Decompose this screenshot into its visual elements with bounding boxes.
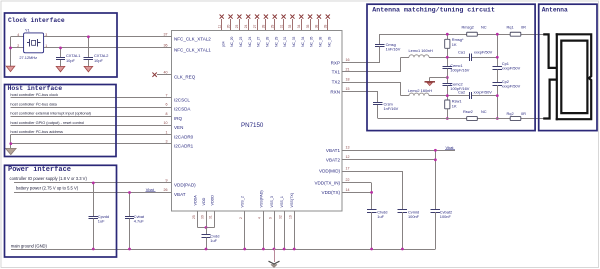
svg-text:I2CSCL: I2CSCL: [174, 98, 190, 103]
svg-text:6: 6: [166, 103, 168, 107]
svg-text:VDDD: VDDD: [210, 195, 214, 206]
IC U1 PN7150: [172, 31, 343, 212]
svg-text:3: 3: [166, 139, 168, 143]
svg-text:37: 37: [164, 33, 168, 37]
node crystal ground junction: [9, 47, 12, 50]
right column Cp1/Cp2: [497, 34, 499, 67]
svg-text:VDD(TX_IN): VDD(TX_IN): [314, 181, 340, 186]
svg-text:1K: 1K: [452, 103, 457, 108]
svg-text:15: 15: [346, 87, 350, 91]
svg-text:Y1: Y1: [25, 28, 31, 33]
svg-text:18: 18: [346, 77, 350, 81]
svg-text:20: 20: [226, 24, 230, 28]
svg-text:VBAT: VBAT: [174, 192, 186, 197]
inductor Lemc1 160nH: [400, 57, 402, 72]
capacitor CXTAL2 10pF: [88, 37, 90, 58]
pin 31 NC_31 NC: [283, 19, 285, 30]
capacitor Cemc2 150pF/16V: [443, 83, 452, 85]
svg-text:I2CSDA: I2CSDA: [174, 107, 191, 112]
svg-text:35: 35: [306, 24, 310, 28]
capacitor Ca1 xxxpF/50V: [469, 54, 471, 61]
svg-text:100nF: 100nF: [440, 214, 452, 219]
crystal Y1 27.12MHz: [24, 33, 44, 53]
svg-text:NC_23: NC_23: [239, 36, 243, 46]
svg-text:40: 40: [164, 70, 168, 74]
capacitor Cvbat2 100nF: [435, 150, 437, 209]
svg-text:4: 4: [258, 217, 262, 219]
wire left vertical to ground: [10, 37, 12, 66]
svg-text:36: 36: [164, 44, 168, 48]
resistor Rq2 0R: [510, 117, 521, 121]
svg-text:xxxpF/50V: xxxpF/50V: [502, 66, 521, 71]
svg-text:NC_28: NC_28: [266, 36, 270, 46]
svg-text:1nF/16V: 1nF/16V: [384, 106, 399, 111]
svg-text:21: 21: [346, 67, 350, 71]
svg-text:NC: NC: [481, 25, 487, 30]
svg-text:VSS_1: VSS_1: [280, 196, 284, 207]
capacitor Cvbat 4.7uF: [129, 193, 131, 217]
pin 4 VSS(PAD): [263, 211, 265, 249]
svg-text:xxxpF/50V: xxxpF/50V: [474, 50, 493, 55]
svg-text:Antenna matching/tuning circui: Antenna matching/tuning circuit: [372, 6, 495, 13]
pin 23 NC_23 NC: [239, 19, 241, 30]
svg-text:VSS_3: VSS_3: [270, 196, 274, 207]
pin 13 VBAT1: [342, 150, 455, 152]
wire crystal pin2 lead: [11, 47, 24, 49]
svg-text:33: 33: [288, 24, 292, 28]
svg-text:34: 34: [297, 24, 301, 28]
capacitor Cemc1 150pF/16V: [443, 66, 452, 68]
svg-text:19: 19: [289, 215, 293, 219]
svg-text:26: 26: [164, 188, 168, 192]
wire net XTAL1 (crystal pin1 to IC pin36): [44, 47, 172, 49]
svg-text:29: 29: [271, 24, 275, 28]
svg-text:28: 28: [262, 24, 266, 28]
svg-text:VEN: VEN: [174, 125, 183, 130]
wire VDD(PAD) supply: [14, 182, 172, 184]
svg-text:NC_20: NC_20: [230, 36, 234, 46]
node tx2: [446, 94, 449, 97]
svg-text:NC_33: NC_33: [292, 36, 296, 46]
ground host box: [6, 148, 17, 154]
capacitor Ctvdd 1uF: [371, 183, 373, 210]
svg-text:10: 10: [164, 121, 168, 125]
pin 29 NC_29 NC: [274, 19, 276, 30]
svg-text:NC_35: NC_35: [310, 36, 314, 46]
svg-text:host controller I²C-bus addres: host controller I²C-bus address: [10, 129, 63, 134]
svg-text:Host interface: Host interface: [8, 85, 63, 92]
capacitor Ca2 xxxpF/50V: [469, 92, 471, 99]
pin 9 VSS_3: [274, 211, 276, 249]
svg-text:NFC_CLK_XTAL1: NFC_CLK_XTAL1: [174, 48, 211, 53]
svg-text:NFC_CLK_XTAL2: NFC_CLK_XTAL2: [174, 37, 211, 42]
wire vdd bus: [198, 227, 215, 229]
svg-text:VDD(TX): VDD(TX): [322, 190, 341, 195]
svg-text:10pF: 10pF: [66, 58, 75, 63]
svg-text:NC_24: NC_24: [248, 36, 252, 46]
pin 38 NC_38 NC: [318, 19, 320, 30]
pin 32 VSS_1: [284, 211, 286, 249]
svg-text:VBAT2: VBAT2: [326, 158, 341, 163]
capacitor Crsm 1nF/16V: [377, 92, 379, 103]
svg-text:VSS(PAD): VSS(PAD): [259, 190, 263, 207]
pin 14 VDD(TX): [342, 192, 372, 194]
wire I2CSDA wire: [10, 107, 171, 109]
node ant1-drive: [446, 56, 449, 59]
pin 17 VDD(MID): [342, 171, 402, 173]
svg-text:100pF/16V: 100pF/16V: [450, 67, 469, 72]
pin 34 NC_34 NC: [301, 19, 303, 30]
svg-text:Rq2: Rq2: [507, 111, 514, 116]
pins VDDA VDD VDDD: [197, 211, 199, 228]
pin 15 RXN: [342, 91, 378, 93]
svg-text:VDD(PAD): VDD(PAD): [174, 183, 196, 188]
ground (antenna matching): [425, 81, 436, 83]
svg-text:4: 4: [17, 33, 19, 37]
ground clock-left: [6, 66, 15, 71]
svg-text:xxxpF/50V: xxxpF/50V: [474, 90, 493, 95]
box Power interface: [5, 165, 117, 257]
node I2CADR1 junction: [9, 142, 12, 145]
pin 20 NC_20 NC: [230, 19, 232, 30]
svg-text:host controller I²C-bus clock: host controller I²C-bus clock: [10, 92, 58, 97]
capacitor Cpvdd 1uF: [93, 183, 95, 216]
svg-text:host controller external inter: host controller external interrupt input…: [10, 112, 91, 116]
pin 19 VSS(TX): [294, 211, 296, 249]
wire I2CADR1: [11, 143, 172, 145]
wire net XTAL2 (crystal pin3 to IC pin37): [44, 36, 172, 38]
wire IRQ wire: [10, 116, 171, 118]
wire bottom rail: [378, 118, 544, 120]
svg-text:I2CADR0: I2CADR0: [174, 134, 194, 139]
svg-text:24: 24: [244, 24, 248, 28]
svg-text:NC_38: NC_38: [319, 36, 323, 46]
svg-text:31: 31: [279, 24, 283, 28]
svg-text:NC_39: NC_39: [327, 36, 331, 46]
wire adr drop to ground: [10, 135, 12, 149]
svg-text:VSS(TX): VSS(TX): [290, 193, 294, 208]
svg-text:TX2: TX2: [332, 80, 341, 85]
resistor Rmsg2 NC: [467, 32, 478, 36]
center column: Rmsg 1K: [447, 34, 449, 39]
svg-text:13: 13: [346, 146, 350, 150]
svg-text:Ca2: Ca2: [458, 89, 465, 94]
capacitor Cmsg 1nF/16V: [379, 34, 381, 44]
svg-text:27.12MHz: 27.12MHz: [19, 55, 37, 60]
svg-text:27: 27: [253, 24, 257, 28]
svg-text:1nF/16V: 1nF/16V: [386, 47, 401, 52]
svg-text:Clock interface: Clock interface: [8, 17, 65, 24]
pin 40 CLK_REQ: [157, 74, 172, 76]
svg-text:32: 32: [278, 215, 282, 219]
svg-text:3: 3: [45, 33, 47, 37]
svg-text:VDD: VDD: [202, 197, 206, 205]
svg-text:VDDA: VDDA: [194, 195, 198, 206]
capacitor CXTAL1 10pF: [60, 48, 62, 58]
svg-text:14: 14: [346, 188, 350, 192]
pin 11 p34 NC: [221, 19, 223, 30]
svg-text:VBAT1: VBAT1: [326, 148, 341, 153]
svg-text:31: 31: [209, 215, 213, 219]
svg-text:Antenna: Antenna: [542, 6, 568, 13]
pin 12 VBAT2: [342, 159, 435, 161]
pin 2 VSS_2: [244, 211, 246, 249]
svg-text:23: 23: [235, 24, 239, 28]
svg-text:RXP: RXP: [331, 60, 340, 65]
node gnd stub: [446, 76, 449, 79]
box Antenna: [539, 4, 597, 130]
svg-text:NC: NC: [481, 109, 487, 114]
svg-text:2: 2: [239, 217, 243, 219]
wire VBAT supply: [14, 192, 172, 194]
capacitor Cp1 xxxpF/50V: [493, 66, 502, 68]
svg-text:1uF: 1uF: [377, 214, 384, 219]
svg-text:1: 1: [45, 44, 47, 48]
wire gnd stub: [430, 77, 448, 79]
resistor Rsw1 1K: [445, 100, 450, 109]
svg-text:8: 8: [166, 112, 168, 116]
svg-text:controller IO power supply (1.: controller IO power supply (1.8 V or 3.3…: [10, 176, 88, 181]
svg-text:2: 2: [17, 44, 19, 48]
svg-text:22: 22: [346, 178, 350, 182]
svg-text:17: 17: [346, 166, 350, 170]
svg-text:4.7uF: 4.7uF: [134, 218, 145, 223]
svg-text:NC_29: NC_29: [274, 36, 278, 46]
wire crystal pin4 lead: [11, 36, 24, 38]
wire I2CSCL wire: [10, 97, 171, 99]
svg-text:30: 30: [200, 215, 204, 219]
pin 27 NC_27 NC: [257, 19, 259, 30]
pin 21 TX1: [342, 71, 401, 73]
svg-text:PN7150: PN7150: [241, 122, 264, 129]
inductor Lemc2 160nH: [400, 82, 402, 96]
wire VEN wire: [10, 125, 171, 127]
svg-text:Ca1: Ca1: [458, 49, 465, 54]
svg-text:100nF: 100nF: [408, 214, 420, 219]
svg-text:TX1: TX1: [332, 70, 341, 75]
svg-text:10pF: 10pF: [94, 58, 103, 63]
svg-text:host controller GPIO (output): host controller GPIO (output) - reset co…: [10, 121, 84, 125]
svg-text:7: 7: [166, 94, 168, 98]
svg-text:IRQ: IRQ: [174, 116, 183, 121]
svg-text:I2CADR1: I2CADR1: [174, 143, 194, 148]
pin 28 NC_28 NC: [265, 19, 267, 30]
svg-text:NC_27: NC_27: [257, 36, 261, 46]
svg-text:VSS_2: VSS_2: [241, 196, 245, 207]
svg-text:9: 9: [268, 217, 272, 219]
svg-text:Power interface: Power interface: [8, 166, 71, 174]
svg-text:battery power (2.75 V up to 5.: battery power (2.75 V up to 5.5 V): [16, 185, 79, 190]
svg-text:main ground (GND): main ground (GND): [11, 243, 48, 248]
svg-text:25: 25: [192, 215, 196, 219]
pin 24 NC_24 NC: [248, 19, 250, 30]
svg-text:1uF: 1uF: [98, 218, 105, 223]
pin 16 RXP: [342, 62, 380, 64]
capacitor Cvmid 100nF: [402, 171, 404, 209]
svg-text:38: 38: [315, 24, 319, 28]
svg-text:39: 39: [324, 24, 328, 28]
svg-text:NC_31: NC_31: [283, 36, 287, 46]
svg-text:1K: 1K: [452, 42, 457, 47]
svg-text:Rq1: Rq1: [507, 25, 514, 30]
ground main (below IC): [274, 249, 276, 262]
pin 39 NC_39 NC: [327, 19, 329, 30]
wire I2CADR0 wire: [10, 134, 171, 136]
svg-text:CLK_REQ: CLK_REQ: [174, 74, 196, 79]
capacitor Cvdd 1uF: [206, 228, 208, 235]
svg-text:0R: 0R: [521, 111, 526, 116]
pin 33 NC_33 NC: [292, 19, 294, 30]
box Host interface: [5, 85, 117, 157]
svg-text:Rsw2: Rsw2: [463, 109, 473, 114]
box Clock interface: [5, 13, 118, 77]
resistor Rsw2 NC: [467, 117, 478, 121]
pin 35 NC_35 NC: [310, 19, 312, 30]
svg-text:1: 1: [166, 130, 168, 134]
svg-text:0R: 0R: [521, 25, 526, 30]
svg-text:RXN: RXN: [330, 90, 340, 95]
svg-text:NC_34: NC_34: [301, 36, 305, 46]
svg-text:VDD(MID): VDD(MID): [319, 169, 340, 174]
resistor Rq1 0R: [510, 32, 521, 36]
svg-text:host controller I²C-bus data: host controller I²C-bus data: [10, 101, 57, 106]
svg-text:Lemc2 160nH: Lemc2 160nH: [408, 88, 432, 93]
pin 22 VDD(TX_IN): [342, 182, 372, 184]
wire RX top rail: [380, 34, 544, 36]
svg-text:xxxpF/50V: xxxpF/50V: [502, 84, 521, 89]
wire main ground rail: [11, 249, 436, 251]
capacitor Cp2 xxxpF/50V: [493, 82, 502, 84]
svg-text:12: 12: [346, 155, 350, 159]
svg-text:11: 11: [218, 25, 222, 29]
svg-text:Rmsg2: Rmsg2: [462, 25, 474, 30]
antenna coil drawing: [543, 34, 557, 68]
svg-text:p34: p34: [221, 41, 225, 47]
pin 18 TX2: [342, 82, 401, 84]
box Antenna matching: [367, 4, 535, 130]
svg-text:1uF: 1uF: [210, 238, 217, 243]
svg-text:16: 16: [346, 58, 350, 62]
svg-text:Lemc1 160nH: Lemc1 160nH: [409, 48, 433, 53]
